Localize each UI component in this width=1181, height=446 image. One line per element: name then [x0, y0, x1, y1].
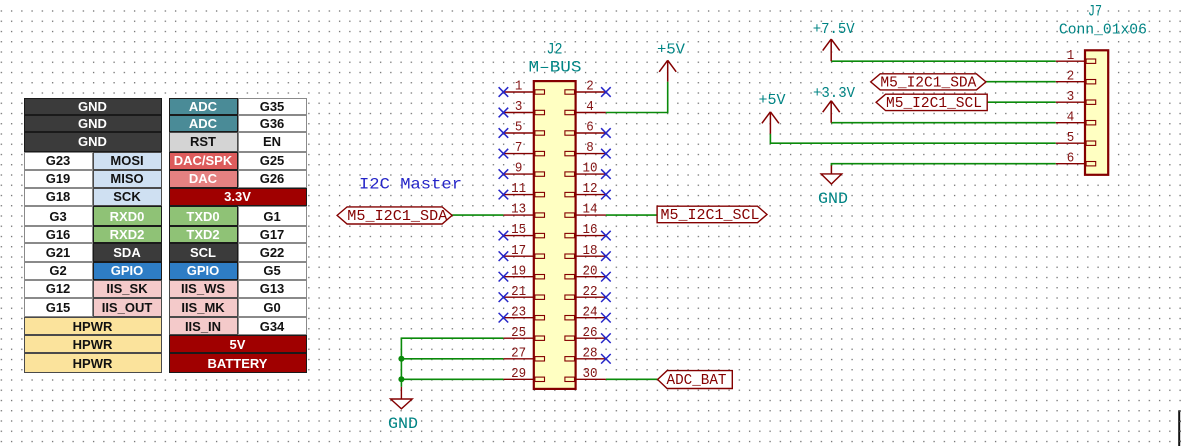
J2 pin 1: [503, 80, 544, 95]
J2 pin 29: [503, 367, 544, 382]
wire pin27: [401, 358, 503, 360]
svg-text:25: 25: [511, 326, 526, 341]
no-connect pin 22: [601, 292, 611, 302]
svg-text:J7: J7: [1088, 3, 1102, 21]
svg-text:20: 20: [583, 264, 598, 279]
svg-text:24: 24: [583, 305, 598, 320]
global label M5_I2C1_SDA: [337, 207, 452, 225]
J7 pin 4: [1056, 110, 1096, 125]
no-connect pin 1: [499, 87, 509, 97]
svg-text:18: 18: [583, 244, 598, 259]
wire pin30 to ADC_BAT: [606, 378, 658, 380]
no-connect pin 16: [601, 231, 611, 241]
no-connect pin 7: [499, 149, 509, 159]
no-connect pin 5: [499, 128, 509, 138]
J2 pin 5: [503, 121, 544, 136]
svg-text:16: 16: [583, 223, 598, 238]
no-connect pin 19: [499, 272, 509, 282]
svg-text:19: 19: [511, 264, 526, 279]
power +7.5V: [813, 22, 855, 61]
J2 pin 13: [503, 203, 544, 218]
no-connect pin 28: [601, 354, 611, 364]
J2 pin 10: [565, 162, 606, 177]
no-connect pin 8: [601, 149, 611, 159]
no-connect pin 6: [601, 128, 611, 138]
wire J7 pin6 to ground: [831, 164, 1055, 166]
partial table edge bottom-right: [1179, 410, 1181, 446]
J2 pin 30: [565, 367, 606, 382]
svg-text:13: 13: [511, 203, 526, 218]
svg-text:+7.5V: +7.5V: [813, 22, 855, 38]
J2 pin 27: [503, 346, 544, 361]
svg-text:6: 6: [586, 121, 594, 136]
J2 pin 6: [565, 121, 606, 136]
no-connect pin 10: [601, 169, 611, 179]
connector J2 body: [534, 81, 576, 389]
J7 pin 2: [1056, 69, 1096, 84]
no-connect pin 2: [601, 87, 611, 97]
J2 pin 11: [503, 182, 544, 197]
no-connect pin 3: [499, 108, 509, 118]
svg-text:1: 1: [1067, 49, 1075, 64]
svg-text:14: 14: [583, 203, 598, 218]
svg-text:M5_I2C1_SCL: M5_I2C1_SCL: [661, 207, 760, 224]
no-connect pin 20: [601, 272, 611, 282]
wire SCL label to J7 pin3: [987, 101, 1055, 103]
J2 pin 8: [565, 141, 606, 156]
svg-text:30: 30: [583, 367, 598, 382]
no-connect pin 15: [499, 231, 509, 241]
svg-text:8: 8: [586, 141, 594, 156]
svg-text:23: 23: [511, 305, 526, 320]
svg-text:Conn_01x06: Conn_01x06: [1059, 22, 1147, 38]
svg-text:26: 26: [583, 326, 598, 341]
wire pin4 to +5V: [606, 82, 668, 113]
J2 pin 24: [565, 305, 606, 320]
svg-text:17: 17: [511, 244, 526, 259]
svg-text:22: 22: [583, 285, 598, 300]
svg-text:12: 12: [583, 182, 598, 197]
svg-text:M5_I2C1_SDA: M5_I2C1_SDA: [880, 74, 976, 91]
J2 pin 25: [503, 326, 544, 341]
J2 pin 12: [565, 182, 606, 197]
svg-text:21: 21: [511, 285, 526, 300]
J7 pin 6: [1056, 151, 1096, 166]
wire pin25: [401, 338, 503, 387]
svg-text:GND: GND: [818, 190, 848, 208]
J2 pin 21: [503, 285, 544, 300]
svg-text:15: 15: [511, 223, 526, 238]
svg-text:4: 4: [586, 100, 594, 115]
no-connect pin 21: [499, 292, 509, 302]
svg-text:4: 4: [1067, 110, 1075, 125]
J2 pin 15: [503, 223, 544, 238]
junction at pin29 wire: [398, 376, 404, 382]
svg-text:J2: J2: [547, 41, 563, 59]
wire pin29: [401, 378, 503, 380]
J2 pin 16: [565, 223, 606, 238]
J2 pin 20: [565, 264, 606, 279]
svg-text:10: 10: [583, 162, 598, 177]
svg-text:M5_I2C1_SCL: M5_I2C1_SCL: [886, 95, 982, 112]
no-connect pin 18: [601, 251, 611, 261]
svg-text:M–BUS: M–BUS: [529, 59, 582, 77]
svg-text:28: 28: [583, 346, 598, 361]
J2 pin 9: [503, 162, 544, 177]
svg-text:3: 3: [515, 100, 523, 115]
svg-text:M5_I2C1_SDA: M5_I2C1_SDA: [347, 208, 447, 225]
global label M5_I2C1_SCL: [657, 206, 767, 224]
power +5V (middle): [657, 43, 685, 82]
connector J7 body: [1085, 50, 1108, 175]
svg-text:2: 2: [1067, 69, 1075, 84]
svg-text:11: 11: [511, 182, 526, 197]
no-connect pin 11: [499, 190, 509, 200]
J7 pin 5: [1056, 131, 1096, 146]
J2 pin 3: [503, 100, 544, 115]
J7 pin 3: [1056, 90, 1096, 105]
svg-text:5: 5: [1067, 131, 1075, 146]
no-connect pin 26: [601, 333, 611, 343]
J2 pin 17: [503, 244, 544, 259]
wire pin13 to label: [452, 214, 503, 216]
J2 pin 26: [565, 326, 606, 341]
J2 pin 2: [565, 80, 606, 95]
global label M5_I2C1_SCL (J7): [876, 94, 987, 112]
J2 pin 18: [565, 244, 606, 259]
power +5V (right): [759, 93, 786, 134]
svg-text:+3.3V: +3.3V: [813, 86, 855, 102]
ground (left): [388, 387, 418, 433]
svg-text:ADC_BAT: ADC_BAT: [667, 372, 727, 389]
J2 pin 19: [503, 264, 544, 279]
svg-text:3: 3: [1067, 90, 1075, 105]
ground (right): [818, 166, 848, 209]
wire +3.3V to J7 pin4: [831, 122, 1055, 124]
power +3.3V: [813, 86, 855, 123]
J2 pin 14: [565, 203, 606, 218]
J2 pin 4: [565, 100, 606, 115]
J7 pin 1: [1056, 49, 1096, 64]
no-connect pin 9: [499, 169, 509, 179]
svg-text:29: 29: [511, 367, 526, 382]
svg-text:27: 27: [511, 346, 526, 361]
wire pin14 to label: [606, 214, 657, 216]
svg-text:9: 9: [515, 162, 523, 177]
svg-text:6: 6: [1067, 151, 1075, 166]
J2 pin 7: [503, 141, 544, 156]
no-connect pin 24: [601, 313, 611, 323]
svg-text:7: 7: [515, 141, 523, 156]
svg-text:2: 2: [586, 80, 594, 95]
global label M5_I2C1_SDA (J7): [871, 74, 986, 92]
svg-text:+5V: +5V: [657, 43, 685, 59]
svg-text:GND: GND: [388, 415, 418, 433]
wire SDA label to J7 pin2: [986, 81, 1056, 83]
no-connect pin 17: [499, 251, 509, 261]
wire +5V to J7 pin5: [770, 134, 1055, 144]
J2 pin 23: [503, 305, 544, 320]
wire +7.5V to J7 pin1: [831, 60, 1055, 62]
J2 pin 22: [565, 285, 606, 300]
global label ADC_BAT: [658, 371, 733, 390]
no-connect pin 12: [601, 190, 611, 200]
svg-text:1: 1: [515, 80, 523, 95]
J2 pin 28: [565, 346, 606, 361]
pinout table: [24, 98, 307, 372]
svg-text:5: 5: [515, 121, 523, 136]
junction at pin27 wire: [398, 356, 404, 362]
svg-text:I2C Master: I2C Master: [359, 176, 462, 194]
svg-text:+5V: +5V: [759, 93, 786, 109]
no-connect pin 23: [499, 313, 509, 323]
